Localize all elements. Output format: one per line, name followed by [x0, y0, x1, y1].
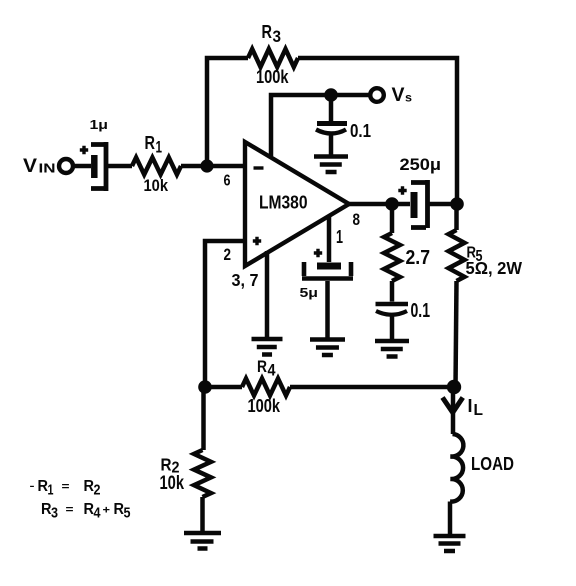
svg-text:=: =	[66, 504, 75, 516]
svg-text:R: R	[84, 478, 95, 495]
svg-text:V: V	[392, 84, 405, 106]
svg-text:IN: IN	[39, 162, 56, 176]
svg-text:s: s	[405, 91, 412, 105]
svg-text:R: R	[41, 501, 52, 518]
svg-text:8: 8	[353, 210, 361, 229]
svg-text:LOAD: LOAD	[471, 454, 514, 474]
svg-text:0.1: 0.1	[411, 300, 431, 322]
svg-text:3: 3	[273, 27, 282, 46]
svg-text:250μ: 250μ	[400, 155, 442, 174]
svg-text:6: 6	[224, 173, 231, 190]
svg-text:4: 4	[268, 361, 277, 380]
svg-text:R: R	[145, 133, 156, 153]
svg-text:10k: 10k	[160, 472, 185, 494]
svg-text:2: 2	[224, 245, 232, 264]
svg-text:R: R	[257, 357, 267, 376]
svg-text:R: R	[38, 478, 49, 495]
svg-text:R: R	[84, 501, 95, 518]
svg-text:3: 3	[51, 506, 58, 522]
svg-text:5Ω, 2W: 5Ω, 2W	[466, 258, 523, 278]
svg-text:2.7: 2.7	[406, 247, 431, 269]
svg-text:1: 1	[156, 138, 163, 157]
svg-text:10k: 10k	[144, 176, 169, 195]
svg-text:4: 4	[94, 506, 102, 522]
svg-text:100k: 100k	[256, 67, 289, 87]
svg-text:3, 7: 3, 7	[232, 270, 259, 290]
svg-text:R: R	[114, 501, 125, 518]
svg-text:I: I	[468, 396, 473, 416]
svg-text:-: -	[30, 481, 35, 492]
svg-text:5μ: 5μ	[300, 286, 319, 300]
svg-text:L: L	[474, 402, 484, 419]
svg-text:0.1: 0.1	[350, 121, 371, 141]
svg-text:2: 2	[94, 483, 101, 499]
svg-text:V: V	[23, 155, 37, 177]
svg-text:1: 1	[48, 483, 54, 499]
svg-text:LM380: LM380	[259, 192, 308, 213]
svg-text:1: 1	[336, 227, 343, 247]
svg-text:100k: 100k	[248, 396, 281, 416]
svg-text:1μ: 1μ	[90, 118, 109, 132]
svg-text:+: +	[103, 505, 111, 517]
svg-text:R: R	[262, 22, 273, 42]
svg-text:=: =	[62, 481, 71, 493]
svg-text:5: 5	[124, 506, 131, 522]
